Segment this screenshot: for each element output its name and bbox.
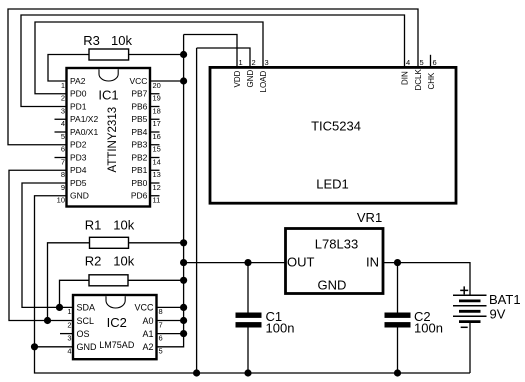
IC2 pin 3 stub OS <box>60 329 90 343</box>
svg-text:15: 15 <box>153 145 161 154</box>
svg-text:GND: GND <box>246 70 255 88</box>
svg-text:18: 18 <box>153 106 161 115</box>
svg-text:2: 2 <box>61 94 65 103</box>
voltage regulator VR1 L78L33 <box>286 210 384 294</box>
svg-text:PA0/X1: PA0/X1 <box>70 127 98 137</box>
resistor R3 <box>83 33 132 60</box>
svg-text:1: 1 <box>239 58 243 67</box>
wire PD4 to IC2 SCL <box>9 170 73 320</box>
svg-text:IC1: IC1 <box>98 88 118 103</box>
svg-text:7: 7 <box>159 320 163 329</box>
svg-text:R2: R2 <box>85 254 102 269</box>
svg-text:PA2: PA2 <box>70 76 86 86</box>
svg-text:R3: R3 <box>83 33 100 48</box>
node R2 to SDA junction <box>56 304 63 311</box>
battery BAT1 9V <box>453 286 521 327</box>
svg-text:PB0: PB0 <box>131 178 147 188</box>
wire C1 bottom lead <box>247 328 249 374</box>
IC2 pin 6 A1 <box>142 329 162 343</box>
wire R1 right lead to VDD net <box>129 242 184 244</box>
IC1 pin 15 stub PB3 <box>131 140 161 154</box>
svg-text:IC2: IC2 <box>107 315 127 330</box>
node C2 top junction <box>394 259 401 266</box>
wire R2 right lead to VDD net <box>128 279 184 281</box>
IC1 pin 14 stub PB2 <box>131 152 161 166</box>
IC1 pin 13 stub PB1 <box>131 165 161 179</box>
svg-text:20: 20 <box>153 81 161 90</box>
wire PD5 to IC2 SDA <box>22 183 73 307</box>
wire LED pin6 CHK stub <box>430 55 432 66</box>
node R1 to SCL junction <box>44 317 51 324</box>
svg-text:LED1: LED1 <box>316 177 349 192</box>
wire PD0 to LOAD loop <box>35 22 263 94</box>
svg-text:SDA: SDA <box>77 303 96 313</box>
IC1 pin 19 stub PB7 <box>131 89 161 103</box>
IC1 pin 20 label VCC <box>129 76 160 90</box>
svg-text:PD5: PD5 <box>70 178 87 188</box>
wire IC2 A2 pin5 to VDD net <box>157 334 184 347</box>
svg-text:5: 5 <box>420 58 424 67</box>
wire battery minus to ground rail <box>469 322 471 373</box>
svg-text:PB1: PB1 <box>131 165 147 175</box>
svg-text:6: 6 <box>61 145 65 154</box>
svg-text:PB6: PB6 <box>131 101 147 111</box>
wire VDD net vertical <box>183 35 185 334</box>
IC1 pin 18 stub PB6 <box>131 101 161 115</box>
wire C2 top lead <box>397 263 399 313</box>
svg-text:19: 19 <box>153 94 161 103</box>
svg-text:LM75AD: LM75AD <box>99 340 135 350</box>
svg-text:17: 17 <box>153 119 161 128</box>
wire C1 top lead <box>247 263 249 313</box>
svg-text:PD0: PD0 <box>70 89 87 99</box>
svg-text:1: 1 <box>61 81 65 90</box>
IC1 pin 3 label PD1 <box>61 101 87 115</box>
svg-text:6: 6 <box>159 333 163 342</box>
svg-text:13: 13 <box>153 170 161 179</box>
svg-text:PB3: PB3 <box>131 140 147 150</box>
LED1 pin 5 DCLK <box>414 58 424 91</box>
svg-text:PD2: PD2 <box>70 140 87 150</box>
wire VDD to LED pin1 VDD <box>184 35 237 67</box>
node IC2 GND junction <box>31 343 38 350</box>
svg-text:GND: GND <box>77 342 98 352</box>
IC2 pin 7 A0 <box>142 316 162 330</box>
svg-text:3: 3 <box>265 58 269 67</box>
capacitor C1 <box>236 309 295 336</box>
svg-text:GND: GND <box>70 191 89 201</box>
svg-text:CHK: CHK <box>427 72 436 90</box>
node IC2 VCC junction <box>180 304 187 311</box>
node R2 to VDD junction <box>180 277 187 284</box>
svg-text:100n: 100n <box>414 321 443 336</box>
IC1 pin 2 label PD0 <box>61 89 87 103</box>
IC2 pin 8 VCC <box>134 303 162 317</box>
svg-text:VCC: VCC <box>129 76 147 86</box>
svg-text:10k: 10k <box>111 33 132 48</box>
wire R1 left lead down to SCL <box>48 243 90 321</box>
svg-text:L78L33: L78L33 <box>315 237 358 252</box>
node R3 to VDD junction <box>180 51 187 58</box>
svg-text:5: 5 <box>61 132 65 141</box>
svg-text:GND: GND <box>318 277 347 292</box>
wire IC2 GND pin4 <box>35 346 74 348</box>
svg-text:10: 10 <box>57 196 65 205</box>
wire GND net to LED pin2 GND <box>197 48 250 66</box>
wire IC1 GND down to ground rail <box>35 196 471 373</box>
resistor R2 <box>85 254 135 286</box>
resistor R1 <box>85 218 135 249</box>
svg-text:9: 9 <box>61 183 65 192</box>
LED1 TIC5234 display body <box>210 67 456 203</box>
node C2 bottom junction <box>394 369 401 376</box>
svg-text:PB2: PB2 <box>131 152 147 162</box>
node IC2 A0 junction <box>180 317 187 324</box>
svg-text:PD1: PD1 <box>70 101 87 111</box>
svg-text:14: 14 <box>153 157 161 166</box>
wire R3 right to VDD net <box>129 54 184 56</box>
capacitor C2 <box>385 309 443 336</box>
svg-text:VR1: VR1 <box>357 210 382 225</box>
IC1 pin 4 stub PA1/X2 <box>55 114 99 128</box>
svg-text:PB4: PB4 <box>131 127 147 137</box>
LED1 pin 3 LOAD <box>259 58 269 93</box>
svg-text:R1: R1 <box>85 218 102 233</box>
IC2 pin 4 GND <box>67 342 97 356</box>
LED1 pin 1 VDD <box>233 58 243 88</box>
IC1 pin 5 stub PA0/X1 <box>55 127 99 141</box>
svg-text:PB7: PB7 <box>131 89 147 99</box>
node GND rail junction <box>193 369 200 376</box>
svg-text:16: 16 <box>153 132 161 141</box>
IC1 pin 1 label PA2 <box>61 76 86 90</box>
svg-text:4: 4 <box>406 58 410 67</box>
svg-text:3: 3 <box>61 106 65 115</box>
wire IC2 A0 pin7 to VDD net <box>157 320 184 322</box>
svg-text:PD4: PD4 <box>70 165 87 175</box>
svg-text:SCL: SCL <box>77 316 95 326</box>
svg-text:10k: 10k <box>113 218 134 233</box>
svg-text:8: 8 <box>61 170 65 179</box>
svg-text:BAT1: BAT1 <box>489 292 521 307</box>
node C1 top junction <box>244 259 251 266</box>
wire C2 bottom lead <box>397 328 399 374</box>
svg-text:5: 5 <box>159 347 163 356</box>
IC1 pin 17 stub PB5 <box>131 114 161 128</box>
IC1 pin 9 label PD5 <box>61 178 87 192</box>
IC1 pin 16 stub PB4 <box>131 127 161 141</box>
svg-text:2: 2 <box>252 58 256 67</box>
svg-text:6: 6 <box>433 58 437 67</box>
svg-text:1: 1 <box>67 307 71 316</box>
svg-text:PD3: PD3 <box>70 152 87 162</box>
wire GND net vertical <box>196 48 198 373</box>
node IC2 A1 junction <box>180 330 187 337</box>
wire PD1 to DIN loop <box>21 15 405 107</box>
svg-text:VCC: VCC <box>134 303 154 313</box>
IC1 pin 10 label GND <box>57 191 89 205</box>
svg-text:OUT: OUT <box>287 255 315 270</box>
svg-text:2: 2 <box>67 320 71 329</box>
wire IC2 A1 pin6 to VDD net <box>157 333 184 335</box>
IC1 pin 12 stub PB0 <box>131 178 161 192</box>
svg-text:ATTINY2313: ATTINY2313 <box>107 107 119 173</box>
IC1 pin 8 label PD4 <box>61 165 87 179</box>
svg-text:LOAD: LOAD <box>259 70 268 92</box>
svg-text:3: 3 <box>67 333 71 342</box>
svg-text:7: 7 <box>61 157 65 166</box>
LED1 pin 4 DIN <box>401 58 411 85</box>
svg-text:A0: A0 <box>142 316 153 326</box>
svg-text:8: 8 <box>159 307 163 316</box>
wire PA2 to R3 left <box>48 55 89 82</box>
svg-text:100n: 100n <box>266 321 295 336</box>
svg-text:DCLK: DCLK <box>414 68 423 90</box>
wire VR1 IN to battery <box>383 263 470 296</box>
svg-text:10k: 10k <box>113 254 134 269</box>
IC2 pin 5 A2 <box>142 342 162 356</box>
svg-text:DIN: DIN <box>401 71 410 85</box>
svg-text:OS: OS <box>77 329 90 339</box>
LED1 pin 6 CHK <box>427 58 437 90</box>
svg-text:TIC5234: TIC5234 <box>311 118 361 133</box>
svg-text:12: 12 <box>153 183 161 192</box>
node IC1 VCC junction <box>180 77 187 84</box>
IC2 pin 2 SCL <box>67 316 94 330</box>
op-amp IC1 ATTINY2313 body <box>67 68 151 207</box>
IC1 pin 7 stub PD3 <box>55 152 87 166</box>
svg-text:9V: 9V <box>490 306 506 321</box>
svg-text:IN: IN <box>366 255 379 270</box>
node VR1 OUT junction <box>180 259 187 266</box>
IC1 pin 11 stub PD6 <box>131 191 160 205</box>
svg-text:A1: A1 <box>142 329 153 339</box>
wire IC2 VCC pin8 to VDD net <box>157 306 184 308</box>
wire R2 left lead down to SDA <box>60 280 90 307</box>
wire IC1 VCC pin20 to VDD net <box>150 80 184 82</box>
IC2 pin 1 SDA <box>67 303 95 317</box>
svg-text:PD6: PD6 <box>131 191 148 201</box>
svg-text:PB5: PB5 <box>131 114 147 124</box>
LED1 pin 2 GND <box>246 58 256 88</box>
svg-text:PA1/X2: PA1/X2 <box>70 114 98 124</box>
node R1 to VDD junction <box>180 239 187 246</box>
svg-text:VDD: VDD <box>233 70 242 87</box>
svg-text:A2: A2 <box>142 342 153 352</box>
wire PD2 to DCLK outer loop <box>8 9 418 145</box>
wire VR1 OUT to VDD net <box>184 262 286 264</box>
IC2 LM75AD body <box>73 295 157 359</box>
node C1 bottom junction <box>244 369 251 376</box>
IC1 pin 6 label PD2 <box>61 140 87 154</box>
svg-text:4: 4 <box>67 347 71 356</box>
svg-text:4: 4 <box>61 119 65 128</box>
svg-text:11: 11 <box>153 196 161 205</box>
